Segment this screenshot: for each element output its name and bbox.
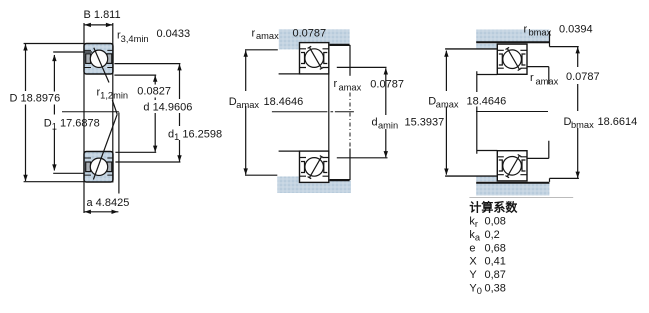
right side-face line: [112, 23, 114, 183]
outer ring edge line (bottom): [300, 175, 329, 177]
svg-text:r: r: [252, 28, 256, 40]
d1 reference lines: [114, 64, 180, 162]
ball (bottom section): [90, 158, 107, 175]
svg-text:r: r: [334, 78, 338, 90]
svg-text:D 18.8976: D 18.8976: [10, 93, 61, 105]
Dbmax bottom reference line: [550, 178, 579, 182]
bore edge lines extending left: [279, 74, 300, 151]
shaft seat lines (right view): [477, 75, 498, 151]
bore line across (right view top): [476, 41, 549, 43]
svg-text:0,08: 0,08: [485, 216, 506, 228]
bearing blue body (bottom section): [84, 152, 113, 183]
svg-text:18.4646: 18.4646: [264, 96, 304, 108]
svg-text:bmax: bmax: [529, 27, 552, 37]
svg-text:计算系数: 计算系数: [469, 200, 518, 215]
svg-text:amax: amax: [536, 77, 559, 87]
housing bore line bottom right: [330, 179, 350, 181]
bearing outline rect (top section, middle view): [300, 43, 329, 74]
table top rule: [469, 197, 573, 199]
ball (bottom, middle view): [305, 158, 324, 177]
contact hatch through ball (bottom, middle view): [308, 156, 324, 179]
inner ring outer edge (top section): [84, 67, 113, 69]
svg-text:18.4646: 18.4646: [467, 96, 507, 108]
svg-text:0,38: 0,38: [485, 282, 506, 294]
cage block left (bottom section): [86, 162, 91, 172]
svg-text:0.0787: 0.0787: [566, 71, 600, 83]
shoulder band top line + Damax bottom ref line: [445, 175, 497, 177]
bearing outline rect (top section, right view): [497, 44, 527, 74]
ring edge lines (top, right view): [497, 50, 527, 68]
svg-text:Y: Y: [469, 269, 477, 281]
cage blocks (top, right view): [499, 54, 526, 65]
svg-text:ka: ka: [469, 229, 481, 243]
inner ring outer edge line (top): [300, 67, 329, 69]
housing blue block bottom (right view): [476, 183, 549, 196]
svg-text:a 4.8425: a 4.8425: [87, 197, 130, 209]
svg-text:kr: kr: [469, 216, 478, 230]
contact hatch (top, right view): [506, 47, 522, 70]
D1 reference lines: [53, 52, 92, 173]
seat lines right of bearing + r ticks: [527, 67, 549, 159]
svg-text:0.0394: 0.0394: [559, 24, 593, 36]
svg-text:0.0433: 0.0433: [157, 28, 191, 40]
cage block left (top section): [86, 54, 91, 64]
Damax reference lines: [245, 50, 278, 175]
svg-text:18.6614: 18.6614: [598, 116, 638, 128]
housing blue block top (right view): [476, 30, 549, 44]
svg-text:0,2: 0,2: [485, 229, 500, 241]
D dimension line: [25, 44, 27, 181]
ramax tick line (middle view): [349, 45, 351, 76]
shoulder band bottom line + Damax top ref line: [445, 48, 497, 50]
cage block right (bottom section): [107, 162, 112, 172]
inner ring outer edge (bottom section): [84, 157, 113, 159]
svg-text:amax: amax: [436, 100, 459, 110]
ball (top, middle view): [305, 49, 324, 68]
cage blocks (bottom, right view): [499, 160, 526, 171]
B dimension line with arrows: [84, 24, 113, 26]
ball (top section): [90, 50, 107, 67]
centreline right view: [476, 111, 548, 113]
ball (bottom, right view): [503, 157, 522, 176]
Dbmax top reference line: [550, 31, 579, 47]
cage blocks (top, middle view): [301, 53, 327, 64]
svg-text:amax: amax: [236, 100, 259, 110]
svg-text:d1 16.2598: d1 16.2598: [168, 129, 222, 143]
bearing blue body (top section): [84, 44, 113, 75]
svg-text:amin: amin: [378, 121, 398, 131]
cage blocks (bottom, middle view): [301, 162, 327, 173]
contact hatch (bottom, right view): [506, 155, 522, 178]
D reference lines: [24, 44, 84, 182]
housing blue block bottom: [277, 177, 351, 194]
contact-angle line through bottom ball: [93, 114, 117, 179]
centreline middle view: [272, 111, 354, 113]
svg-text:0.0827: 0.0827: [137, 86, 171, 98]
ball (top, right view): [503, 50, 522, 69]
shoulder face line (right view): [476, 71, 478, 154]
ring edge lines (bottom, right view): [497, 157, 527, 175]
left side-face line: [83, 23, 85, 213]
a dimension line with outward arrows: [84, 211, 118, 213]
svg-text:amax: amax: [339, 83, 362, 93]
shoulder blue band (right view bottom-left): [476, 177, 497, 182]
svg-text:Y0: Y0: [469, 282, 482, 296]
outer ring inner edge (top section): [84, 49, 113, 51]
centreline left view: [62, 111, 119, 113]
svg-text:X: X: [469, 256, 477, 268]
bearing right face line between sections: [328, 74, 330, 151]
svg-text:bmax: bmax: [571, 120, 594, 130]
svg-text:r: r: [530, 72, 534, 84]
svg-text:r3,4min: r3,4min: [117, 29, 149, 44]
svg-text:B 1.811: B 1.811: [84, 9, 121, 21]
svg-text:d: d: [372, 117, 378, 129]
svg-text:0.0787: 0.0787: [293, 28, 327, 40]
svg-text:0,41: 0,41: [485, 256, 506, 268]
svg-text:0.0787: 0.0787: [370, 79, 404, 91]
svg-text:0,68: 0,68: [485, 242, 506, 254]
Damax dimension line (right view): [445, 51, 447, 175]
shoulder blue band (right view top-left): [476, 44, 497, 49]
inner ring edge line (bottom): [300, 157, 329, 159]
contact hatch through ball (top, middle view): [308, 46, 324, 69]
svg-text:D1 17.6878: D1 17.6878: [44, 117, 100, 131]
svg-text:e: e: [469, 242, 475, 254]
outer ring inner edge line (top): [300, 48, 329, 50]
cage block right (top section): [107, 54, 112, 64]
d reference lines: [114, 75, 156, 152]
svg-text:d 14.9606: d 14.9606: [143, 102, 192, 114]
D1 dimension line: [53, 55, 55, 171]
svg-text:15.3937: 15.3937: [405, 117, 445, 129]
damin dimension line: [385, 68, 387, 157]
pressure-point extension line (a dim right): [118, 113, 120, 194]
outer ring inner edge (bottom section): [84, 174, 113, 176]
svg-text:amax: amax: [256, 31, 279, 41]
Damax dimension line: [245, 51, 247, 175]
housing bore line top right: [330, 44, 350, 46]
d1 dimension line: [179, 64, 181, 161]
bearing outline rect (bottom section, right view): [497, 151, 527, 181]
d dimension line: [154, 76, 156, 152]
damin reference lines: [337, 67, 388, 157]
svg-text:r: r: [524, 24, 528, 36]
housing blue block top: [279, 29, 350, 49]
contact-angle line through top ball: [94, 48, 117, 115]
svg-text:0,87: 0,87: [485, 269, 506, 281]
bearing outline rect (bottom section, middle view): [300, 151, 329, 182]
bore line across (right view bottom): [476, 182, 549, 184]
Dbmax dimension line: [577, 47, 579, 178]
